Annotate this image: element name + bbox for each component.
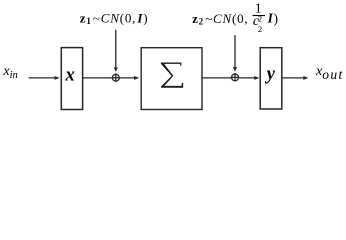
svg-text:2: 2 [258, 14, 262, 24]
wire input arrow [29, 77, 56, 79]
svg-text:z1~CN(0,I): z1~CN(0,I) [80, 11, 149, 27]
svg-text:2: 2 [258, 24, 262, 34]
wire Sigma to adder2 and on to Y with arrow [202, 77, 255, 79]
adder1 (circle-plus) [112, 74, 119, 81]
label Sigma (drawn glyph) [161, 63, 183, 88]
block Y [260, 48, 282, 109]
wire z2 down arrow [234, 35, 236, 68]
svg-text:z2~CN(0,: z2~CN(0, [192, 11, 248, 27]
svg-text:I): I) [267, 10, 278, 26]
svg-text:xout: xout [315, 64, 344, 82]
wire output arrow [282, 77, 304, 79]
wire X to adder1 and on to Sigma with arrow [83, 77, 135, 79]
svg-text:y: y [265, 64, 276, 84]
label z2 fraction bar [253, 15, 266, 17]
svg-text:x: x [64, 66, 74, 86]
wire z1 down arrow [115, 30, 117, 69]
adder2 (circle-plus) [232, 74, 239, 81]
block X [61, 48, 82, 110]
block Sigma [141, 48, 202, 110]
svg-text:xin: xin [2, 64, 17, 81]
